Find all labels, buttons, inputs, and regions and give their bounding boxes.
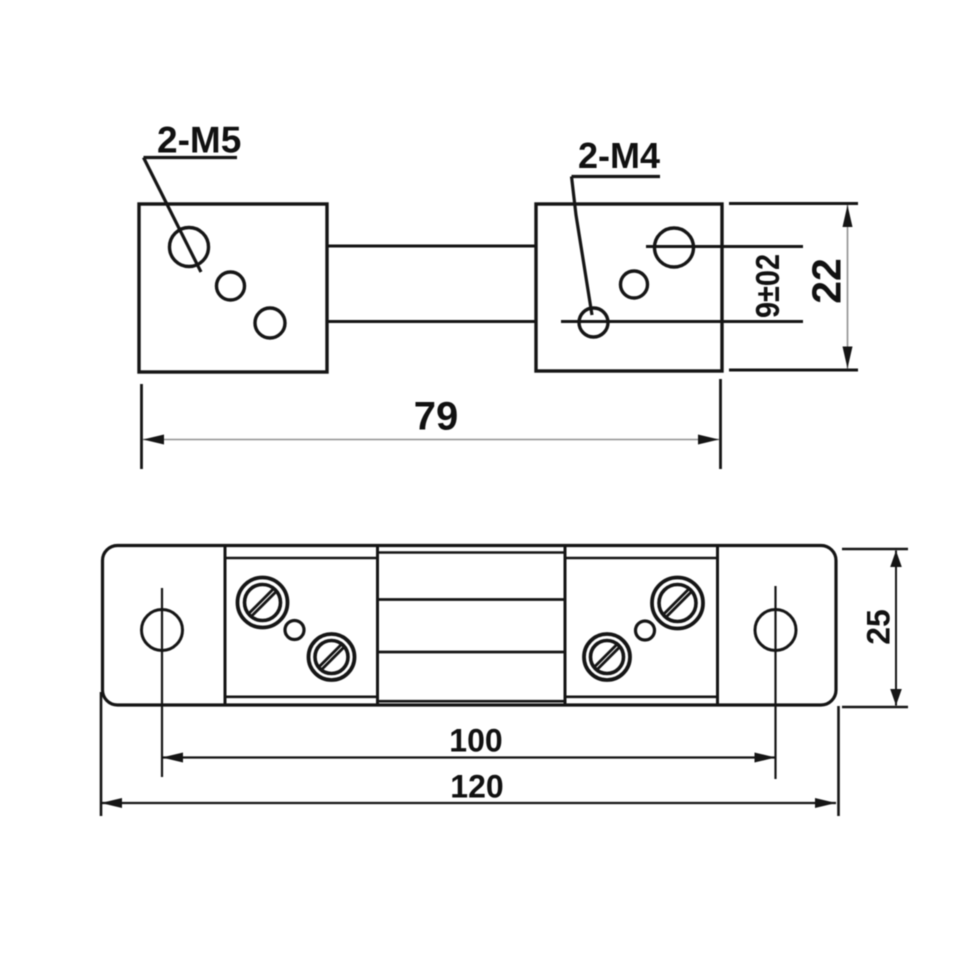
hole M4 small, right block <box>579 308 608 337</box>
svg-text:2-M4: 2-M4 <box>578 135 660 176</box>
svg-text:22: 22 <box>804 258 850 304</box>
label 2-M4 underline <box>572 175 661 178</box>
svg-text:120: 120 <box>450 769 503 805</box>
dimension 22: top arrowhead <box>843 205 853 227</box>
middle element bottom line <box>378 700 566 703</box>
dimension 25: bottom extension line <box>842 706 908 709</box>
right terminal block outline <box>536 204 722 371</box>
dimension 100: dimension line <box>162 756 776 758</box>
screw S3 outer circle (right block upper) <box>652 578 703 629</box>
hole middle, right block <box>621 271 648 298</box>
dimension 120: left arrowhead <box>101 798 122 808</box>
screw S2 head circle <box>315 641 348 674</box>
screw S1 outer circle (left block upper) <box>238 578 288 628</box>
svg-text:25: 25 <box>861 609 897 645</box>
dimension 22: top extension line <box>729 202 858 205</box>
screw S2 outer circle (left block lower) <box>309 634 355 680</box>
middle element top line <box>378 551 566 554</box>
hole large, right block <box>655 228 694 267</box>
left block right edge <box>376 546 379 706</box>
dimension 100: left arrowhead <box>162 753 183 763</box>
wire: lower resistance strip line between blocks <box>327 320 536 323</box>
centerline through small right hole <box>561 320 803 323</box>
left terminal block outline <box>139 204 327 372</box>
centerline through large right hole <box>646 245 803 248</box>
screw S3 head circle <box>659 585 696 622</box>
dimension 120: right arrowhead <box>815 798 836 808</box>
screw S4 head circle <box>591 641 624 674</box>
hole middle, left block <box>217 272 245 300</box>
right block inner top line <box>565 557 718 560</box>
base plate outline <box>103 546 837 706</box>
dimension 25: bottom arrowhead <box>890 689 902 706</box>
dimension 79: right arrowhead <box>698 435 719 445</box>
left block inner bottom line <box>225 695 378 698</box>
screw S4 slot <box>594 644 617 667</box>
svg-text:2-M5: 2-M5 <box>157 120 241 161</box>
small hole between screws (right block) <box>636 621 655 640</box>
right mounting hole centerline <box>774 586 776 779</box>
left block inner top line <box>225 557 378 560</box>
wire: upper resistance strip line between blocks <box>327 245 536 248</box>
screw S2 slot <box>319 644 342 667</box>
dimension 25: dimension line <box>895 551 897 706</box>
dimension 22: bottom extension line <box>729 369 858 372</box>
leader line 2-M5 <box>144 158 202 273</box>
right block left edge <box>564 546 567 706</box>
screw S3 slot <box>663 589 689 615</box>
dimension 22: bottom arrowhead <box>843 347 853 369</box>
left mounting hole <box>142 610 183 651</box>
dimension 79: right extension line <box>719 379 722 469</box>
right block right edge <box>716 546 719 706</box>
svg-text:100: 100 <box>449 723 502 759</box>
middle element strip line 1 <box>378 598 566 601</box>
dimension 120: dimension line <box>101 802 836 804</box>
hole lower, left block <box>255 308 285 338</box>
dimension 79: left extension line <box>140 384 143 469</box>
middle element strip line 2 <box>378 651 566 654</box>
dimension 120: left extension line <box>100 692 103 816</box>
screw S4 outer circle (right block lower) <box>584 634 630 680</box>
hole M5 large, left block <box>170 228 209 267</box>
dimension 79: left arrowhead <box>143 435 164 445</box>
left mounting hole centerline <box>161 588 163 777</box>
right block inner bottom line <box>565 695 718 698</box>
left block left edge <box>224 546 227 706</box>
dimension 22: dimension line <box>847 205 849 369</box>
dimension 25: top extension line <box>842 548 908 551</box>
screw S1 slot <box>249 589 274 614</box>
leader line 2-M4 <box>572 177 593 316</box>
svg-text:9±02: 9±02 <box>749 254 786 318</box>
dimension 25: top arrowhead <box>890 551 902 568</box>
screw S1 head circle <box>245 585 281 621</box>
dimension 79: dimension line <box>143 439 719 441</box>
right mounting hole <box>755 610 796 651</box>
dimension 120: right extension line <box>837 706 840 816</box>
label 2-M5 underline <box>144 156 238 159</box>
small hole between screws (left block) <box>285 621 304 640</box>
dimension 100: right arrowhead <box>755 753 776 763</box>
svg-text:79: 79 <box>414 395 459 439</box>
